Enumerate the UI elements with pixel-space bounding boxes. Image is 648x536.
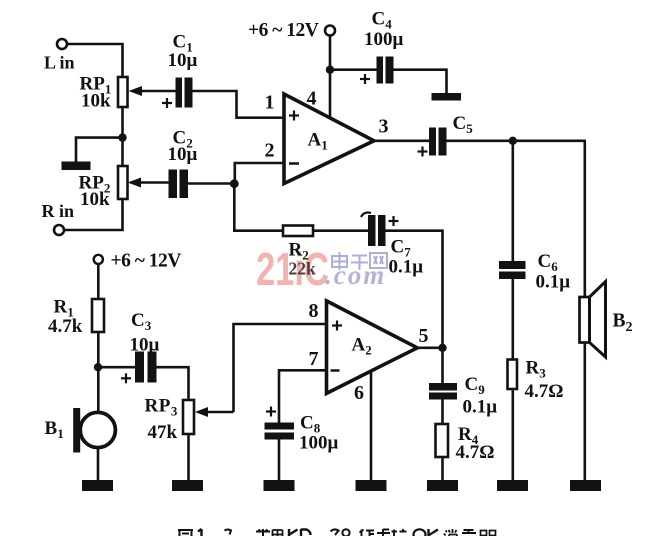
plus input mark of A2 xyxy=(332,321,342,331)
svg-text:3: 3 xyxy=(379,116,389,138)
svg-text:100μ: 100μ xyxy=(364,29,404,50)
capacitor C2 xyxy=(169,170,189,199)
wire C4 to ground xyxy=(394,70,447,93)
svg-text:B2: B2 xyxy=(613,311,633,336)
wire pin 5 to output node xyxy=(417,346,442,349)
resistor R3 xyxy=(508,360,518,390)
ground (RP3) xyxy=(172,480,203,491)
potentiometer RP2 xyxy=(118,166,169,199)
svg-text:10μ: 10μ xyxy=(168,50,198,71)
wire R2 to C7 xyxy=(313,229,368,232)
polarity + of C1 xyxy=(162,98,172,108)
svg-text:1: 1 xyxy=(265,92,275,114)
wire C2 to node at pin 2 xyxy=(188,182,235,185)
svg-text:RP3: RP3 xyxy=(145,396,178,419)
svg-text:4.7Ω: 4.7Ω xyxy=(525,381,564,402)
svg-text:C5: C5 xyxy=(453,113,474,136)
ground (B2) xyxy=(570,480,601,491)
ground (C4) xyxy=(432,93,462,101)
ground (B1) xyxy=(82,480,113,491)
capacitor C9 xyxy=(429,383,457,400)
svg-text:4.7k: 4.7k xyxy=(48,316,83,337)
polarity + of C4 xyxy=(360,74,370,84)
potentiometer RP1 xyxy=(118,77,176,107)
wire R in to RP2 bottom xyxy=(64,199,123,230)
capacitor C5 xyxy=(429,128,447,156)
ground (R3) xyxy=(497,480,528,491)
wire R3 to ground xyxy=(511,389,514,480)
wire pin 6 to ground xyxy=(370,371,373,480)
wire RP3 to ground xyxy=(187,434,190,480)
svg-text:0.1μ: 0.1μ xyxy=(389,257,424,278)
resistor R2 xyxy=(283,226,313,237)
capacitor C7 xyxy=(361,213,386,247)
wire node down to R2 xyxy=(234,184,283,231)
resistor R4 xyxy=(436,424,449,457)
wire L in to RP1 top xyxy=(67,44,123,77)
wire C6 to R3 xyxy=(511,279,514,360)
terminal L in xyxy=(57,39,67,49)
wire C1 to pin 1 of A1 xyxy=(193,91,285,118)
wire node to C9 xyxy=(441,348,444,383)
ground (input pots) xyxy=(62,162,91,171)
svg-text:7: 7 xyxy=(309,348,319,370)
svg-text:10μ: 10μ xyxy=(130,335,160,356)
potentiometer RP3 xyxy=(183,400,234,434)
capacitor C4 xyxy=(377,57,394,84)
wire RP1 bottom to junction xyxy=(121,107,124,166)
svg-text:C9: C9 xyxy=(465,374,486,397)
svg-text:.com: .com xyxy=(325,260,386,290)
junction node pin5/C7/C9 xyxy=(438,344,446,352)
minus input mark of A2 xyxy=(331,369,340,372)
wire C9 to R4 xyxy=(441,400,444,425)
svg-text:L in: L in xyxy=(44,53,75,73)
svg-text:47k: 47k xyxy=(148,422,178,443)
ground (R4) xyxy=(427,480,458,491)
terminal R in xyxy=(54,225,64,235)
svg-text:C3: C3 xyxy=(131,310,152,333)
wire R4 to ground xyxy=(441,457,444,480)
capacitor C8 xyxy=(265,423,295,440)
svg-text:0.1μ: 0.1μ xyxy=(463,397,498,418)
svg-text:10k: 10k xyxy=(81,91,111,112)
wire B2 to ground xyxy=(583,343,586,481)
ground (C8) xyxy=(264,480,295,491)
wire RP3 wiper to pin 8 of A2 xyxy=(234,324,327,412)
wire power to pin 4 of A1 xyxy=(329,36,332,118)
wire R1 to B1 xyxy=(97,332,100,414)
wire junction to ground stub xyxy=(76,138,123,162)
wire node to C6 xyxy=(511,141,514,261)
svg-text:+6 ~ 12V: +6 ~ 12V xyxy=(111,251,182,272)
polarity + of C8 xyxy=(266,407,276,417)
svg-text:10k: 10k xyxy=(80,189,110,210)
capacitor C3 xyxy=(135,352,157,383)
watermark xyxy=(256,243,387,295)
junction node power/C4 xyxy=(326,66,334,74)
svg-text:R in: R in xyxy=(42,201,75,221)
svg-text:+6 ~ 12V: +6 ~ 12V xyxy=(248,20,319,41)
junction node pin2/C2/R2 xyxy=(230,179,239,188)
svg-text:6: 6 xyxy=(354,382,364,404)
wire pin 3 to C5 xyxy=(374,140,429,143)
wire pin 7 to C8 xyxy=(279,370,327,422)
svg-text:R3: R3 xyxy=(526,358,547,381)
svg-text:B1: B1 xyxy=(45,418,64,441)
svg-text:4: 4 xyxy=(307,88,317,110)
power terminal +6~12V (mic) xyxy=(94,255,103,264)
svg-text:5: 5 xyxy=(419,325,429,347)
op-amp A2 xyxy=(327,301,418,394)
junction node RP1/RP2/ground xyxy=(118,133,126,141)
caption (clipped figure title) xyxy=(178,529,496,536)
speaker B2 xyxy=(580,282,606,358)
capacitor C1 xyxy=(176,78,193,108)
svg-text:22k: 22k xyxy=(289,259,317,279)
capacitor C6 xyxy=(499,261,526,279)
wire power to R1 xyxy=(97,264,100,299)
svg-text:4.7Ω: 4.7Ω xyxy=(456,442,495,463)
svg-text:2: 2 xyxy=(265,140,275,162)
ground (pin 6 of A2) xyxy=(356,480,387,491)
junction node R1/C3/B1 xyxy=(94,363,102,371)
wire C7 to A2 output node xyxy=(385,231,443,348)
wire junction to C4 xyxy=(330,68,377,71)
wire junction to C3 xyxy=(98,366,135,369)
polarity + of C3 xyxy=(121,373,131,383)
wire C5 to output node and B2 xyxy=(447,140,587,143)
wire node to pin 2 of A1 xyxy=(235,163,284,184)
resistor R1 xyxy=(92,299,104,332)
wire B1 to ground xyxy=(97,448,100,481)
power terminal +6~12V (top) xyxy=(325,26,335,36)
wire C3 to RP3 xyxy=(157,367,189,400)
plus input mark of A1 xyxy=(289,111,299,121)
svg-text:100μ: 100μ xyxy=(299,433,339,454)
svg-text:8: 8 xyxy=(309,300,319,322)
polarity + of C5 xyxy=(418,147,428,157)
junction node output/C6 xyxy=(509,137,517,145)
minus input mark of A1 xyxy=(289,162,299,165)
polarity + of C7 xyxy=(389,216,399,226)
wire C8 to ground xyxy=(278,440,281,481)
wire top to speaker B2 xyxy=(583,141,586,297)
microphone B1 xyxy=(73,408,115,453)
svg-text:10μ: 10μ xyxy=(168,144,198,165)
op-amp A1 xyxy=(284,94,374,184)
svg-text:0.1μ: 0.1μ xyxy=(536,272,571,293)
